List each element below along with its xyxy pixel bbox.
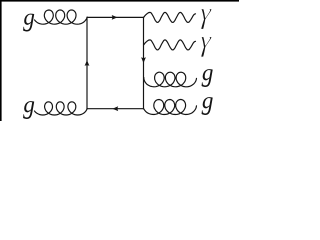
- quark loop right edge: [143, 17, 145, 108]
- gluon g incoming bottom-left: [35, 102, 88, 115]
- arrow on right quark edge (downward): [141, 57, 146, 63]
- photon gamma outgoing second: [144, 40, 196, 50]
- label g incoming bottom-left: [23, 101, 34, 119]
- frame left rule: [0, 0, 2, 121]
- photon gamma outgoing top: [144, 12, 196, 22]
- quark loop left edge: [86, 17, 88, 108]
- gluon g outgoing third: [144, 72, 197, 87]
- label g incoming top-left: [23, 14, 34, 32]
- label gamma top: [201, 9, 212, 29]
- label g outgoing bottom: [202, 97, 213, 115]
- arrow on top quark edge (rightward): [112, 15, 118, 20]
- quark loop bottom edge: [87, 108, 144, 110]
- arrow on left quark edge (upward): [85, 60, 90, 66]
- frame top rule: [0, 0, 239, 2]
- arrow on bottom quark edge (leftward): [112, 106, 118, 111]
- label g outgoing third: [202, 69, 213, 87]
- gluon g incoming top-left: [35, 10, 88, 24]
- label gamma second: [201, 37, 212, 57]
- quark loop top edge: [87, 16, 144, 18]
- gluon g outgoing bottom: [144, 100, 197, 115]
